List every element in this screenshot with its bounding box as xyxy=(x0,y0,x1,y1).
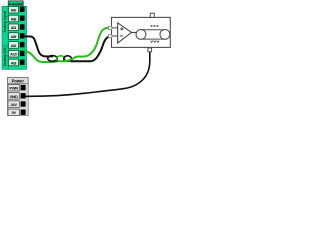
svg-text:Analog Out: Analog Out xyxy=(3,47,7,67)
pad + input xyxy=(109,26,112,29)
terminal AI0 xyxy=(20,7,25,12)
terminal 0V xyxy=(21,110,26,115)
wire green signal rise (twisted pair to op-amp plus pad) xyxy=(64,28,110,62)
svg-text:24V: 24V xyxy=(10,102,17,107)
marks above sensor xyxy=(151,25,159,27)
terminal 24V xyxy=(21,101,26,106)
svg-text:0V: 0V xyxy=(11,110,16,115)
sensor element belt bottom xyxy=(141,38,165,40)
row AI0 label box xyxy=(8,6,18,13)
terminal AI9 xyxy=(20,33,25,38)
row AI8 label box xyxy=(8,15,18,22)
op-amp U1A xyxy=(118,23,132,43)
sensor box U1 xyxy=(112,13,171,52)
terminal GND xyxy=(21,93,26,98)
analog block side strip xyxy=(2,6,8,69)
plus sign xyxy=(120,27,123,30)
svg-text:PWR: PWR xyxy=(9,86,18,91)
svg-text:A10: A10 xyxy=(10,52,18,57)
terminal AI8 xyxy=(20,16,25,21)
row AI2 label box xyxy=(8,42,18,49)
row AI9 label box xyxy=(8,33,18,40)
analog block side strip divider xyxy=(2,45,8,47)
analog terminal rows xyxy=(8,6,26,69)
bottom pin P2 xyxy=(148,48,152,52)
wire black signal lead-in (AI9 terminal down to twisted pair) xyxy=(25,36,54,56)
svg-text:Analog: Analog xyxy=(9,2,23,7)
op-amp U1A input stubs xyxy=(112,27,118,29)
row 24V label box xyxy=(8,101,19,107)
row AI1 label box xyxy=(8,24,18,31)
twisted pair loop black 1 xyxy=(48,56,58,62)
analog terminal block J1 xyxy=(2,1,23,69)
svg-text:Power: Power xyxy=(12,79,25,84)
twisted pair loop green xyxy=(57,56,65,62)
row PWR label box xyxy=(8,85,19,91)
row GND label box xyxy=(8,93,19,99)
terminal PWR xyxy=(21,85,26,90)
row 0V label box xyxy=(8,109,19,115)
terminal AI3 xyxy=(20,60,25,65)
power rows background xyxy=(8,84,29,116)
power terminal block J2 xyxy=(8,77,29,115)
svg-text:GND: GND xyxy=(10,94,18,99)
sensor element left circle xyxy=(136,29,146,39)
sensor element right circle xyxy=(160,29,170,39)
top pin P1 xyxy=(150,13,154,17)
marks below sensor xyxy=(151,41,160,43)
terminal AI2 xyxy=(20,42,25,47)
terminal rows background xyxy=(8,6,26,69)
twisted pair loop black 2 xyxy=(64,56,72,62)
wire black between loops xyxy=(55,59,64,62)
analog block header xyxy=(8,1,23,7)
sensor element belt top xyxy=(141,29,165,31)
row AI3 label box xyxy=(8,59,18,66)
minus sign xyxy=(120,35,123,37)
svg-text:Analog Input: Analog Input xyxy=(3,10,7,32)
wire black power (GND to sensor bottom pin) xyxy=(26,52,150,96)
terminal A10 xyxy=(20,51,25,56)
wire green signal lead-in (AI10 terminal down to twisted pair) xyxy=(24,51,58,63)
wire black signal rise (twisted pair to op-amp minus pad) xyxy=(71,36,111,61)
op-amp output wire xyxy=(132,31,138,33)
terminal AI1 xyxy=(20,24,25,29)
pad - input xyxy=(109,34,112,37)
power block header xyxy=(8,77,29,84)
row A10 label box xyxy=(8,50,18,57)
